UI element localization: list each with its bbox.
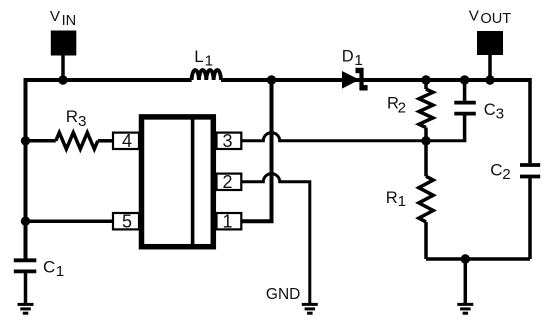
wire VIN stub <box>61 54 65 80</box>
wire bottom right <box>426 257 530 261</box>
resistor R2 <box>424 80 428 89</box>
svg-text:1: 1 <box>398 193 406 210</box>
svg-text:5: 5 <box>122 212 132 232</box>
svg-text:3: 3 <box>222 131 232 151</box>
resistor R1 <box>424 141 428 177</box>
svg-text:L: L <box>194 47 203 66</box>
svg-text:1: 1 <box>222 212 232 232</box>
capacitor C1 <box>14 258 37 262</box>
svg-text:1: 1 <box>354 52 362 69</box>
op IC U1 body <box>142 117 214 247</box>
node FB junction <box>421 136 430 145</box>
inductor L1 <box>192 70 221 80</box>
pin 1 box <box>217 213 242 229</box>
node C3 top junction <box>460 75 469 84</box>
wire SW node vertical <box>242 80 272 221</box>
svg-text:OUT: OUT <box>480 11 511 27</box>
ground (GND pin) <box>302 303 318 306</box>
VIN terminal square <box>51 31 77 56</box>
wire left rail <box>24 78 28 259</box>
capacitor C3 <box>463 78 467 101</box>
pin 5 box <box>113 213 139 229</box>
wire top bus right segment <box>221 78 530 82</box>
node R3 junction <box>21 136 30 145</box>
wire top bus left segment <box>26 78 192 82</box>
svg-text:1: 1 <box>56 263 64 280</box>
svg-text:2: 2 <box>222 172 232 192</box>
svg-text:4: 4 <box>122 131 132 151</box>
capacitor C2 <box>528 78 532 163</box>
svg-text:2: 2 <box>398 99 406 116</box>
wire right ground stub <box>464 259 468 303</box>
svg-text:V: V <box>469 7 480 24</box>
resistor R3 <box>26 139 56 143</box>
svg-text:IN: IN <box>62 13 77 29</box>
svg-text:C: C <box>490 160 502 179</box>
svg-text:3: 3 <box>496 105 504 122</box>
VOUT terminal square <box>477 31 503 55</box>
wire VOUT stub <box>488 54 492 80</box>
svg-text:D: D <box>342 48 354 66</box>
svg-text:3: 3 <box>78 113 86 130</box>
wire pin3 to FB node with hop <box>242 133 466 141</box>
svg-text:R: R <box>386 189 398 207</box>
node VOUT junction <box>485 75 494 84</box>
wire pin2 to GND with hop <box>242 174 310 304</box>
svg-text:R: R <box>66 107 78 126</box>
node SW junction <box>267 75 276 84</box>
wire pin5 to left rail <box>26 219 114 223</box>
node pin5/C1 junction <box>21 217 30 226</box>
ground (output divider) <box>457 303 473 306</box>
svg-text:1: 1 <box>205 52 213 69</box>
node bottom ground junction <box>461 254 470 263</box>
ground (C1) <box>18 303 34 306</box>
pin 2 box <box>217 174 242 190</box>
svg-text:C: C <box>484 101 496 119</box>
pin 4 box <box>113 133 139 149</box>
svg-text:C: C <box>43 258 55 277</box>
pin 3 box <box>217 133 242 149</box>
node R2 top junction <box>421 75 430 84</box>
node VIN junction <box>58 75 67 84</box>
IC inner divider line <box>191 117 195 247</box>
svg-text:2: 2 <box>502 166 510 183</box>
diode D1 (Schottky) <box>342 71 360 89</box>
svg-text:V: V <box>50 8 61 25</box>
svg-text:GND: GND <box>266 286 300 303</box>
